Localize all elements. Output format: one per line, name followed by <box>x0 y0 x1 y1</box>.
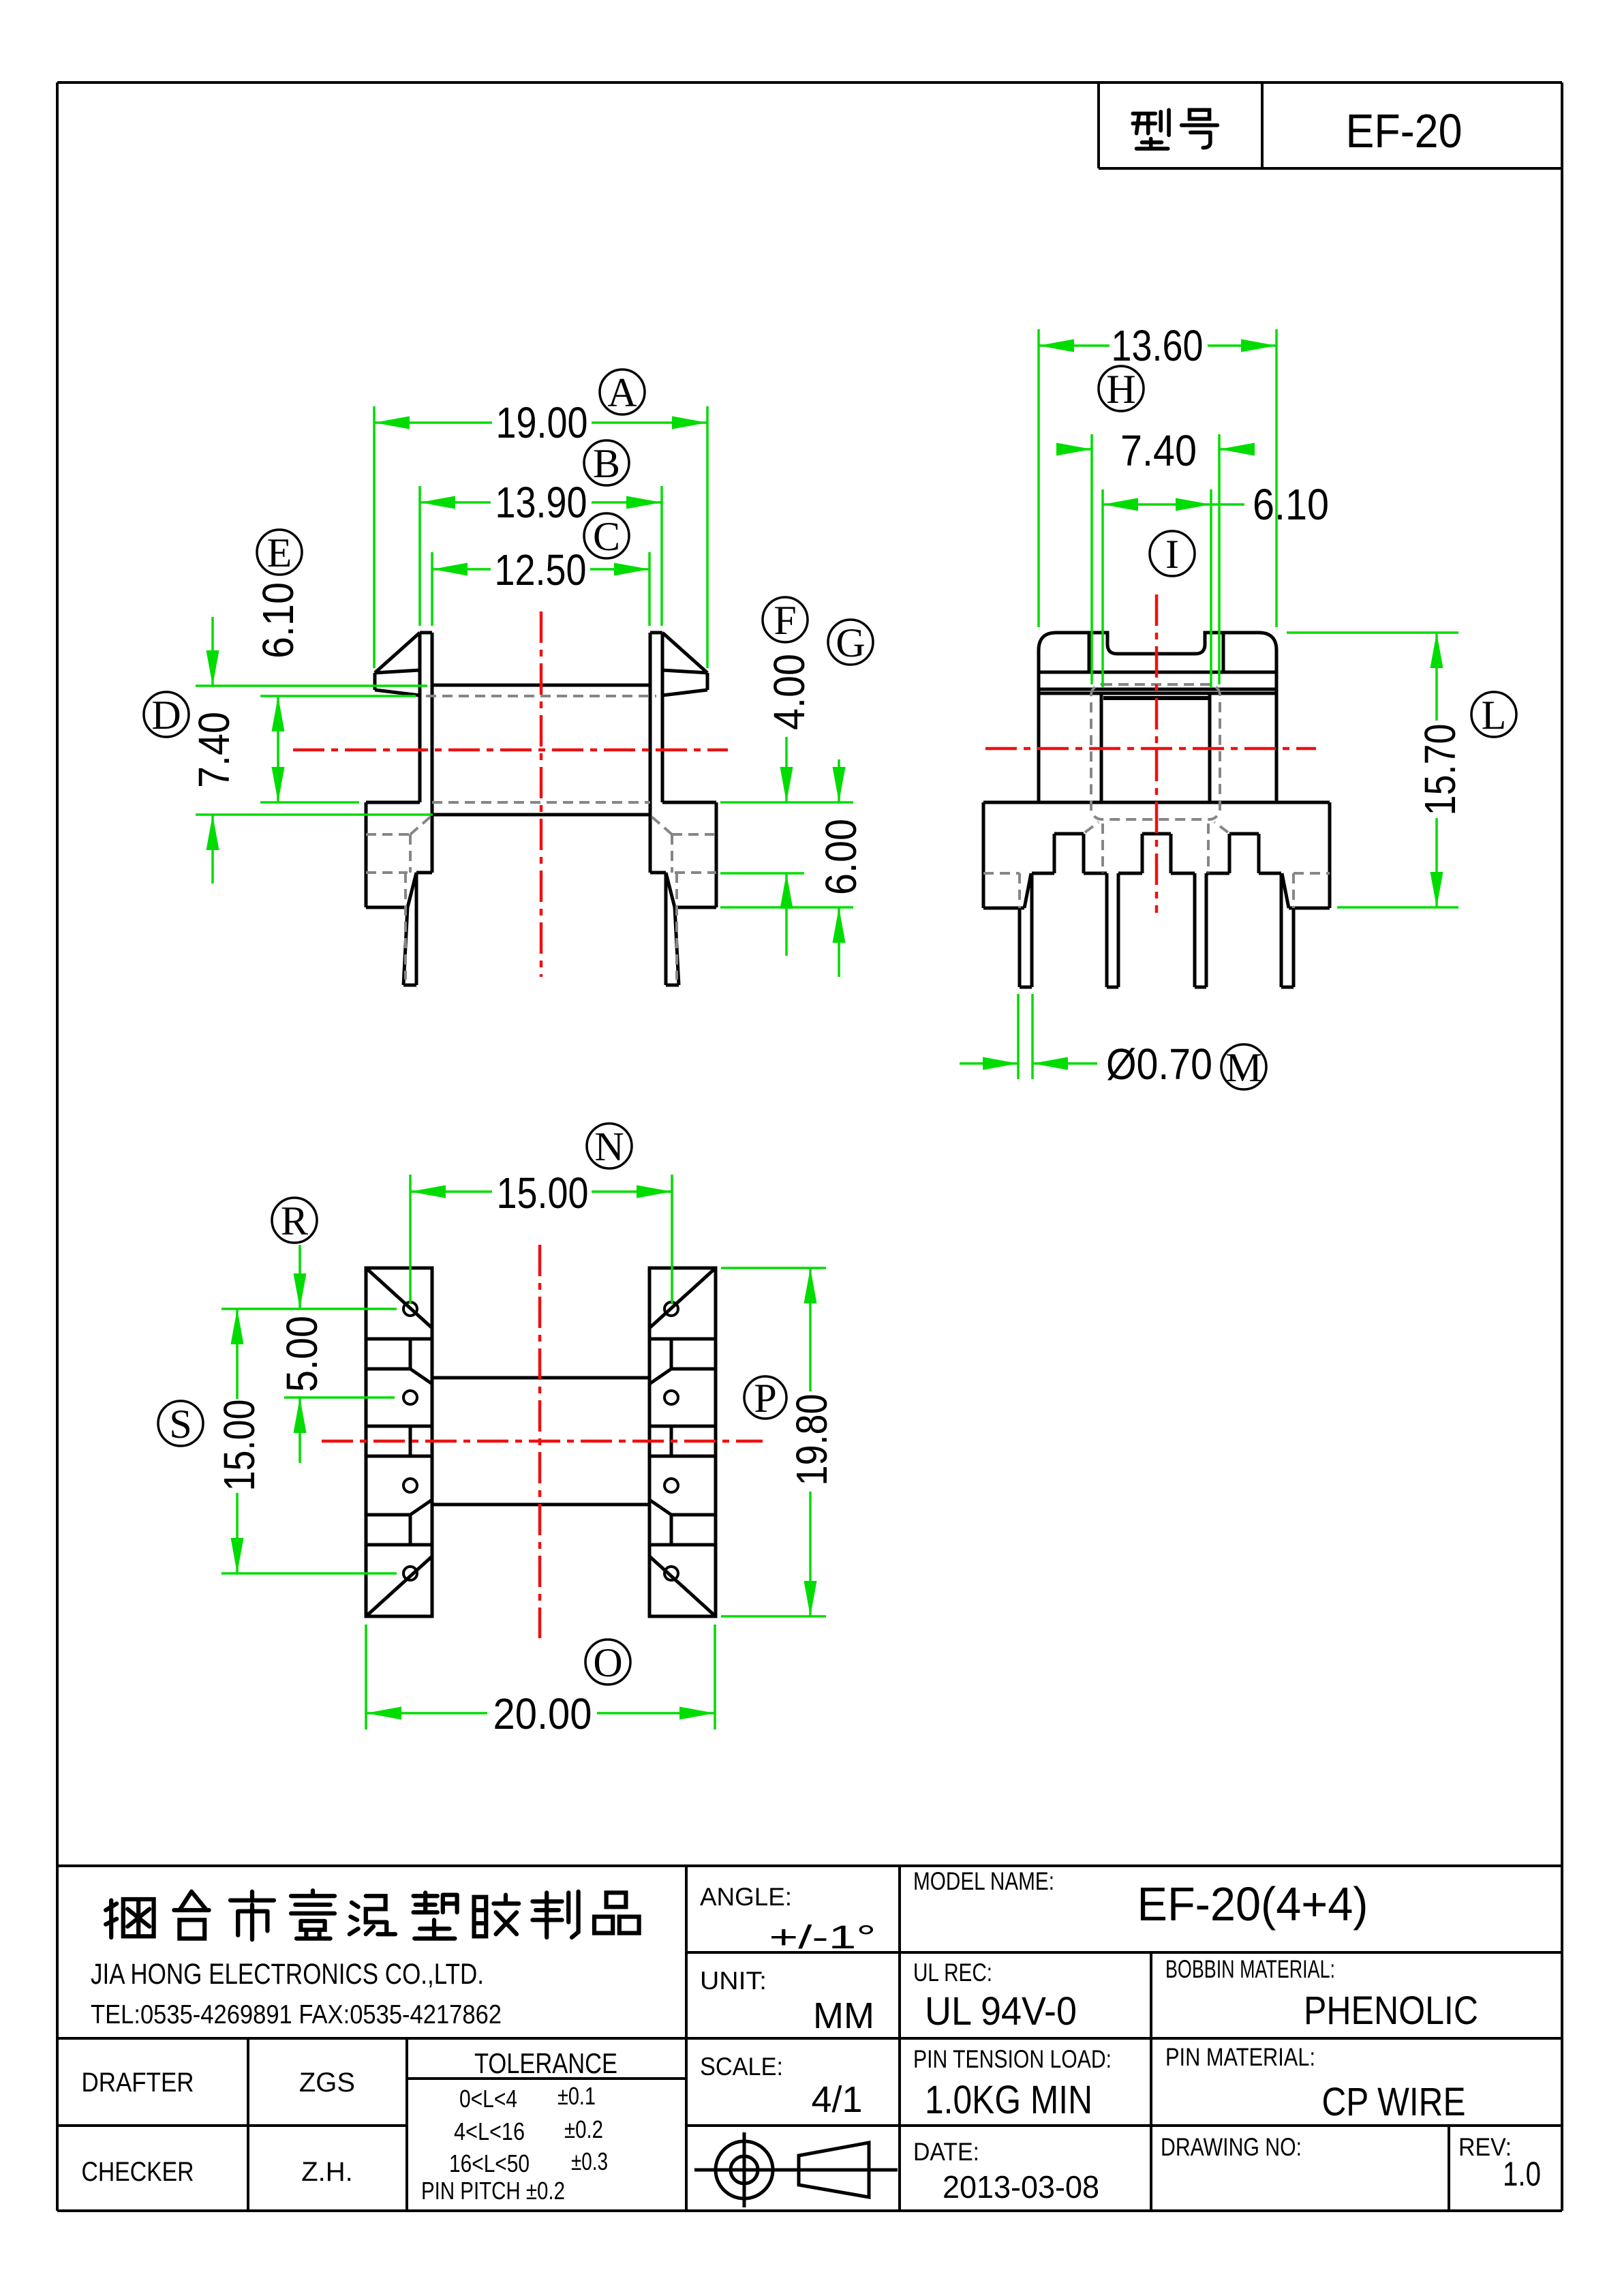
svg-text:15.00: 15.00 <box>215 1400 264 1492</box>
svg-text:CP WIRE: CP WIRE <box>1322 2080 1466 2124</box>
svg-text:PIN PITCH ±0.2: PIN PITCH ±0.2 <box>421 2177 565 2205</box>
svg-text:±0.3: ±0.3 <box>571 2147 608 2175</box>
svg-text:1.0KG MIN: 1.0KG MIN <box>925 2078 1092 2122</box>
svg-text:2013-03-08: 2013-03-08 <box>943 2169 1099 2205</box>
svg-text:EF-20: EF-20 <box>1346 104 1463 157</box>
svg-text:16<L<50: 16<L<50 <box>449 2149 530 2177</box>
svg-text:S: S <box>169 1402 192 1447</box>
svg-text:+/-1°: +/-1° <box>769 1920 876 1956</box>
svg-text:6.10: 6.10 <box>254 582 303 659</box>
svg-text:7.40: 7.40 <box>1120 426 1197 475</box>
svg-text:E: E <box>267 530 292 575</box>
svg-text:DATE:: DATE: <box>913 2138 979 2166</box>
svg-text:UL 94V-0: UL 94V-0 <box>925 1989 1077 2034</box>
svg-text:UNIT:: UNIT: <box>700 1967 767 1995</box>
svg-text:Ø0.70: Ø0.70 <box>1106 1040 1212 1089</box>
svg-text:ZGS: ZGS <box>299 2068 355 2098</box>
svg-text:TOLERANCE: TOLERANCE <box>474 2047 617 2079</box>
svg-text:BOBBIN MATERIAL:: BOBBIN MATERIAL: <box>1165 1955 1335 1983</box>
svg-text:SCALE:: SCALE: <box>700 2053 783 2081</box>
svg-text:PIN TENSION LOAD:: PIN TENSION LOAD: <box>913 2045 1112 2073</box>
svg-text:19.00: 19.00 <box>496 398 588 447</box>
svg-text:P: P <box>754 1376 776 1421</box>
svg-text:CHECKER: CHECKER <box>82 2157 194 2187</box>
svg-text:20.00: 20.00 <box>493 1689 592 1738</box>
svg-text:±0.1: ±0.1 <box>557 2082 596 2110</box>
svg-text:6.00: 6.00 <box>816 819 866 895</box>
svg-text:D: D <box>151 693 181 738</box>
svg-text:O: O <box>593 1640 622 1685</box>
svg-text:4.00: 4.00 <box>765 654 814 730</box>
svg-text:19.80: 19.80 <box>787 1394 836 1486</box>
svg-text:N: N <box>594 1124 624 1169</box>
svg-text:PHENOLIC: PHENOLIC <box>1304 1989 1478 2033</box>
svg-text:±0.2: ±0.2 <box>564 2115 603 2143</box>
svg-text:MODEL NAME:: MODEL NAME: <box>913 1867 1054 1895</box>
svg-text:7.40: 7.40 <box>189 712 239 788</box>
svg-text:C: C <box>593 514 620 559</box>
svg-text:F: F <box>774 598 796 643</box>
svg-text:15.00: 15.00 <box>497 1168 589 1218</box>
svg-text:DRAWING NO:: DRAWING NO: <box>1161 2133 1302 2161</box>
svg-text:13.60: 13.60 <box>1112 321 1204 370</box>
svg-text:JIA HONG ELECTRONICS CO.,LTD.: JIA HONG ELECTRONICS CO.,LTD. <box>91 1958 484 1991</box>
svg-text:1.0: 1.0 <box>1503 2155 1541 2193</box>
svg-text:DRAFTER: DRAFTER <box>82 2068 194 2098</box>
svg-text:4/1: 4/1 <box>811 2079 862 2120</box>
svg-text:5.00: 5.00 <box>277 1316 326 1392</box>
svg-text:H: H <box>1106 367 1135 412</box>
svg-text:13.90: 13.90 <box>495 478 587 527</box>
svg-text:I: I <box>1165 532 1179 577</box>
svg-text:15.70: 15.70 <box>1416 724 1465 816</box>
svg-text:12.50: 12.50 <box>495 545 587 594</box>
svg-text:0<L<4: 0<L<4 <box>459 2085 517 2113</box>
svg-text:TEL:0535-4269891 FAX:0535-421: TEL:0535-4269891 FAX:0535-4217862 <box>91 2000 502 2029</box>
svg-text:MM: MM <box>813 1995 874 2036</box>
svg-text:Z.H.: Z.H. <box>301 2157 353 2187</box>
svg-text:PIN MATERIAL:: PIN MATERIAL: <box>1165 2043 1315 2071</box>
svg-text:G: G <box>836 620 865 665</box>
svg-text:B: B <box>593 441 620 486</box>
svg-text:L: L <box>1482 693 1507 738</box>
svg-text:A: A <box>607 370 637 415</box>
svg-text:ANGLE:: ANGLE: <box>700 1883 792 1911</box>
svg-text:EF-20(4+4): EF-20(4+4) <box>1137 1877 1368 1931</box>
svg-text:4<L<16: 4<L<16 <box>454 2117 525 2145</box>
svg-text:6.10: 6.10 <box>1253 480 1329 529</box>
svg-text:UL REC:: UL REC: <box>913 1959 992 1987</box>
svg-text:M: M <box>1225 1045 1261 1090</box>
svg-text:R: R <box>281 1198 308 1243</box>
